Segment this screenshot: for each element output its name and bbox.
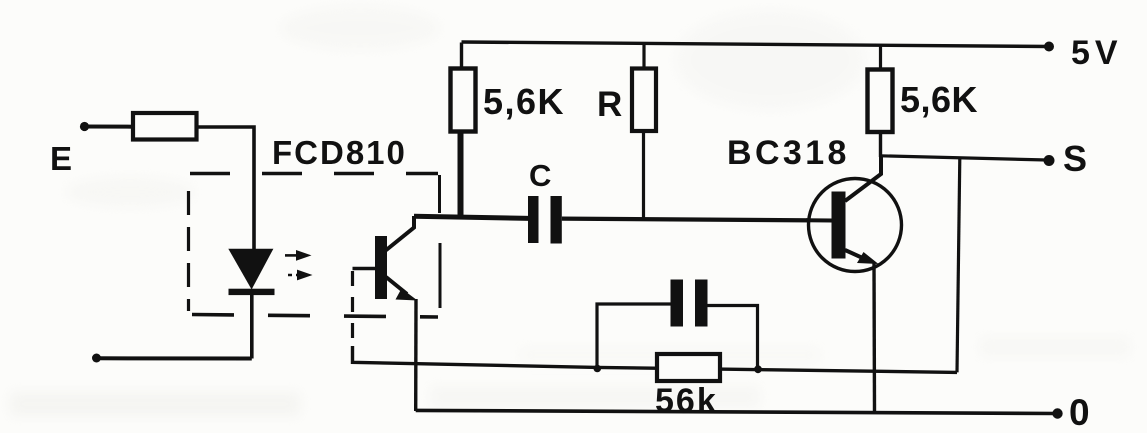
LED D1 (optocoupler emitter diode) [228,249,273,290]
capacitor C2 right branch wire [708,306,758,371]
transistor Q2 collector [845,156,881,201]
power rail 5V [462,42,1050,47]
wire LED cathode down [250,294,254,359]
wire LED return to terminal [97,356,252,360]
junction dot C2 left [594,365,602,373]
svg-text:5,6K: 5,6K [900,79,978,120]
phototransistor Q1 emitter [386,277,418,301]
transistor Q2 BC318 circle [809,179,902,272]
light arrow 2 [288,270,313,281]
label Q2 BC318 [727,134,850,172]
svg-text:5V: 5V [1071,34,1123,72]
label R2 R [597,85,622,124]
feedback line (base to S) [597,367,957,372]
label R3 5,6K [900,79,978,120]
capacitor C1 right plate [551,196,562,244]
optocoupler U1 dashed box left [187,191,190,311]
label 5V [1071,34,1123,72]
ground rail 0 [416,410,1057,413]
svg-text:5,6K: 5,6K [483,81,565,122]
transistor Q2 emitter [845,250,879,264]
resistor R2 R body [632,69,656,132]
optocoupler U1 dashed box right [438,175,442,308]
wire C1 to BC318 base [562,219,832,221]
terminal S dot [1044,155,1055,166]
svg-text:E: E [50,140,72,177]
wire from resistor R1 down (thick) [458,131,464,220]
wire R2 down to mid line [642,131,645,220]
capacitor C1 left plate [528,196,539,243]
svg-text:FCD810: FCD810 [272,134,407,171]
capacitor C2 right plate [695,280,708,327]
capacitor C2 left plate [671,280,684,327]
svg-text:56k: 56k [655,382,718,420]
svg-text:C: C [529,158,551,193]
wire E to input resistor [84,125,134,129]
wire R3 down to S junction [879,132,882,157]
resistor R4 56k body [657,354,720,381]
label FCD810 [272,134,407,171]
svg-text:BC318: BC318 [727,134,850,172]
wire S line down to feedback line [957,158,960,373]
resistor R3 5,6K body [868,70,893,133]
phototransistor Q1 collector [385,216,414,251]
label E [50,140,72,177]
label 0 [1069,392,1090,433]
capacitor C2 left branch wire [597,304,671,368]
junction dot C2 right [754,365,762,373]
light arrow 1 [285,250,312,261]
output line S [881,156,1048,160]
wire phototransistor emitter down to 0 rail [414,299,418,411]
label C1 C [529,158,551,193]
label R4 56k [655,382,718,420]
phototransistor Q1 base lead [353,267,377,270]
transistor Q2 base bar [832,192,846,259]
resistor R2 R top wire [642,44,645,70]
wire mid line into Q2 base [806,218,832,222]
LED D1 cathode bar [229,289,275,295]
wire collector line to capacitor C [414,216,529,218]
resistor R1 5,6K body [451,69,476,132]
wire base to feedback line corner [353,346,598,367]
resistor R3 5,6K top wire [879,45,882,70]
wire phototransistor base dashed down [351,271,354,348]
svg-text:R: R [597,85,622,124]
label S [1063,138,1087,179]
wire input resistor to LED anode [197,127,255,250]
terminal 5V dot [1044,42,1054,52]
svg-text:S: S [1063,138,1087,179]
terminal dot bottom-left [92,354,101,363]
resistor R1 5,6K top wire [460,43,463,69]
optocoupler U1 FCD810 dashed box top [190,172,438,175]
label R1 5,6K [483,81,565,122]
resistor R-in (input series resistor) [133,113,197,140]
phototransistor Q1 base bar [375,236,387,299]
optocoupler U1 dashed box bottom [192,315,438,318]
svg-text:0: 0 [1069,392,1090,433]
terminal E dot [80,122,89,131]
wire Q2 emitter down to 0 rail [872,263,876,412]
terminal 0 dot [1052,408,1062,418]
